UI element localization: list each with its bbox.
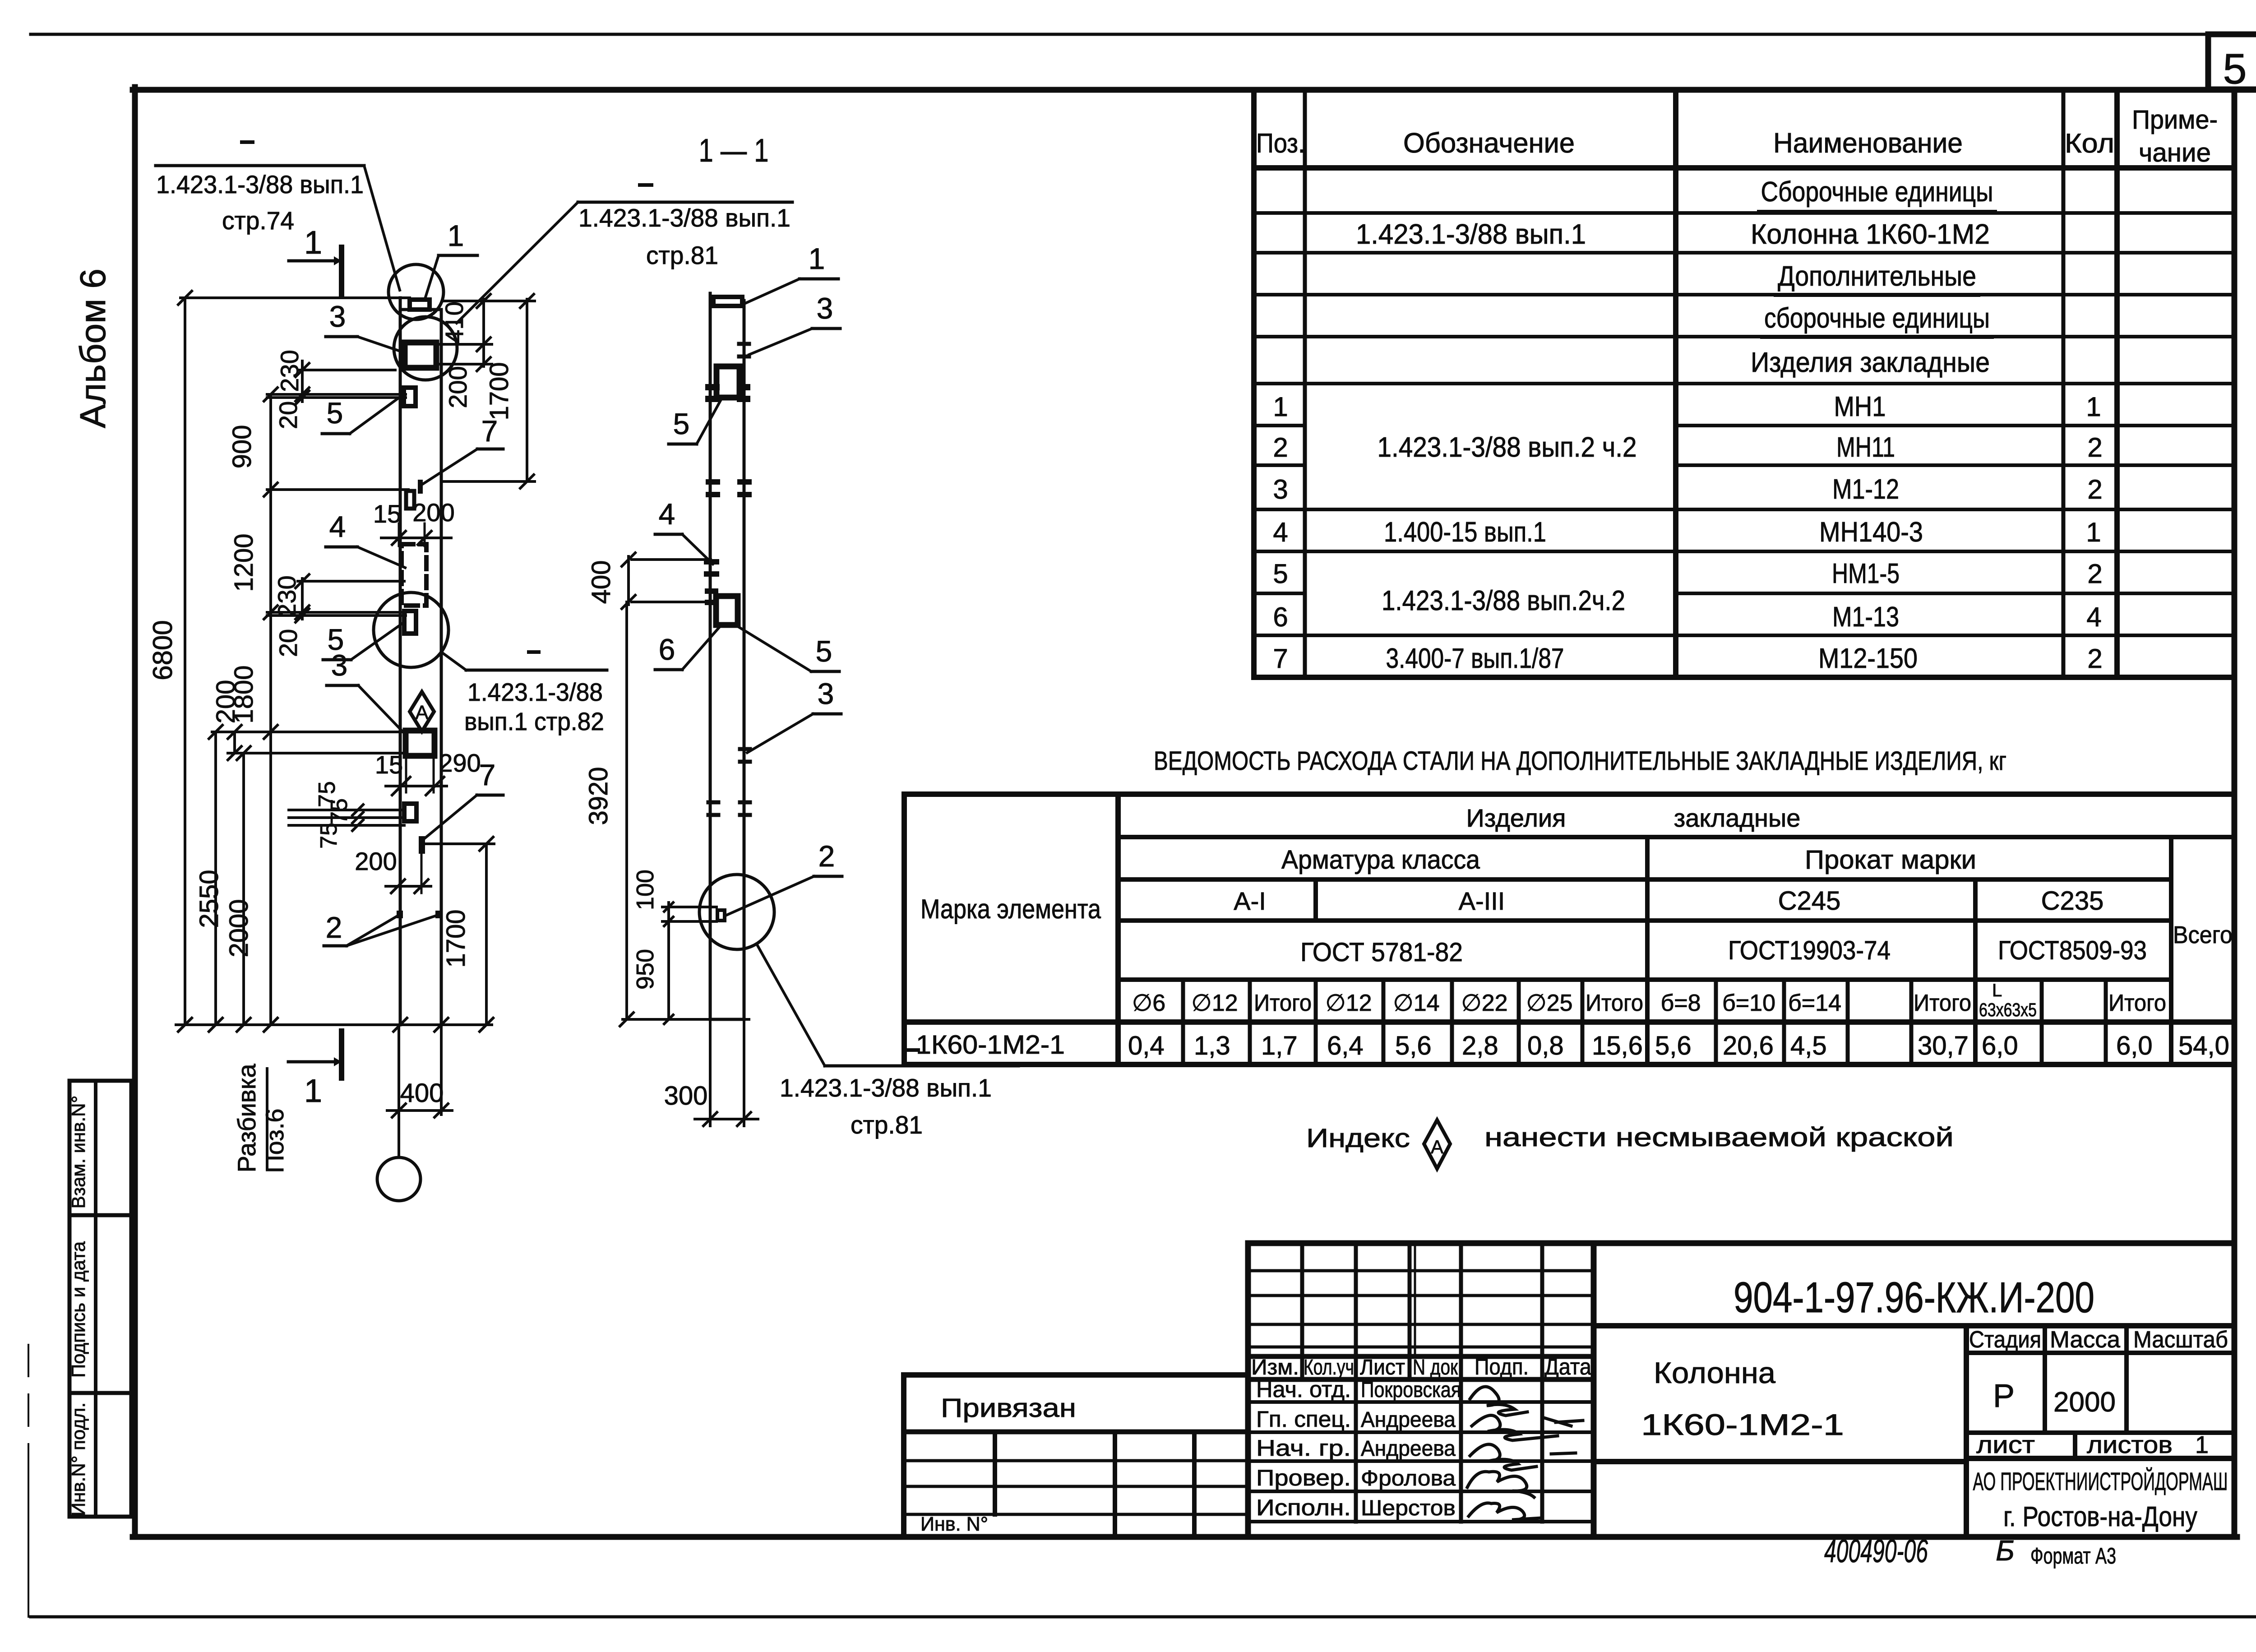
svg-text:вып.1 стр.82: вып.1 стр.82 (464, 707, 604, 736)
svg-text:1.423.1-3/88 вып.1: 1.423.1-3/88 вып.1 (1356, 219, 1586, 250)
svg-text:4,5: 4,5 (1790, 1031, 1827, 1060)
section pos2 rect (717, 910, 725, 921)
svg-text:Наименование: Наименование (1773, 128, 1963, 159)
svg-text:ГОСТ19903-74: ГОСТ19903-74 (1728, 936, 1891, 965)
svg-text:Колонна: Колонна (1654, 1356, 1775, 1389)
svg-text:М1-12: М1-12 (1832, 474, 1899, 505)
detail circle mid (374, 592, 448, 667)
svg-text:1: 1 (2086, 517, 2101, 547)
svg-text:15,6: 15,6 (1592, 1031, 1643, 1060)
svg-text:30,7: 30,7 (1918, 1031, 1969, 1060)
svg-text:Инв.N° подл.: Инв.N° подл. (68, 1402, 89, 1516)
svg-text:Изделия закладные: Изделия закладные (1751, 347, 1990, 378)
svg-text:100: 100 (632, 870, 659, 910)
svg-text:1700: 1700 (441, 909, 471, 967)
svg-text:4: 4 (1273, 517, 1288, 547)
svg-text:1200: 1200 (229, 533, 259, 592)
section bottom ext line (623, 1018, 749, 1021)
steel table grid (901, 794, 907, 1064)
svg-text:1.423.1-3/88 вып.1: 1.423.1-3/88 вып.1 (578, 204, 791, 232)
svg-text:1: 1 (809, 242, 825, 275)
svg-text:А: А (1431, 1136, 1443, 1157)
svg-text:2: 2 (818, 839, 835, 873)
svg-text:Андреева: Андреева (1361, 1408, 1456, 1432)
svg-text:Сборочные единицы: Сборочные единицы (1761, 176, 1993, 208)
svg-text:б=8: б=8 (1660, 990, 1701, 1016)
dim chain 410/200 upper right (482, 299, 485, 366)
title block small table (1245, 1243, 1251, 1537)
svg-text:2,8: 2,8 (1462, 1031, 1498, 1060)
svg-text:закладные: закладные (1674, 804, 1801, 832)
svg-text:листов: листов (2087, 1431, 2173, 1458)
svg-text:1: 1 (1273, 392, 1288, 422)
svg-text:1700: 1700 (485, 362, 514, 420)
svg-text:3920: 3920 (584, 767, 613, 825)
section mark bottom (339, 1031, 344, 1078)
svg-text:75: 75 (316, 823, 342, 849)
svg-text:Нач. гр.: Нач. гр. (1256, 1435, 1351, 1461)
svg-text:Исполн.: Исполн. (1256, 1495, 1351, 1520)
svg-text:5: 5 (1273, 559, 1288, 589)
svg-text:4: 4 (659, 497, 675, 531)
svg-text:7: 7 (479, 758, 496, 791)
svg-text:2: 2 (2087, 559, 2102, 589)
svg-text:Кол: Кол (2065, 128, 2114, 158)
svg-text:7: 7 (1273, 643, 1288, 674)
svg-text:1.400-15 вып.1: 1.400-15 вып.1 (1384, 517, 1546, 548)
svg-text:2: 2 (326, 911, 342, 944)
extension lines left view (180, 296, 410, 299)
drawing frame left (132, 87, 138, 1537)
svg-text:А-III: А-III (1459, 887, 1505, 915)
svg-text:Кол.уч: Кол.уч (1304, 1356, 1354, 1379)
dim 200 (pos7 lower) (386, 885, 431, 888)
svg-text:А-I: А-I (1234, 887, 1266, 915)
svg-text:1,7: 1,7 (1261, 1031, 1298, 1060)
svg-text:МН1: МН1 (1834, 391, 1886, 422)
svg-text:300: 300 (664, 1081, 708, 1111)
svg-text:Разбивка: Разбивка (232, 1064, 261, 1173)
svg-text:3: 3 (817, 292, 833, 325)
plate pos5 mid (404, 611, 416, 634)
svg-text:Итого: Итого (1254, 990, 1312, 1016)
section bottom edge (710, 1018, 744, 1021)
svg-text:0,8: 0,8 (1527, 1031, 1564, 1060)
svg-text:5: 5 (816, 634, 832, 668)
svg-text:4: 4 (329, 510, 346, 543)
svg-text:Изделия: Изделия (1466, 804, 1566, 832)
svg-text:4: 4 (2086, 602, 2101, 632)
svg-text:7: 7 (481, 414, 498, 448)
svg-text:Колонна 1К60-1М2: Колонна 1К60-1М2 (1751, 219, 1990, 250)
svg-text:200: 200 (355, 847, 397, 875)
svg-text:Инв. N°: Инв. N° (920, 1513, 988, 1535)
page number box (2208, 34, 2256, 89)
svg-text:1.423.1-3/88: 1.423.1-3/88 (467, 678, 603, 706)
svg-text:∅22: ∅22 (1461, 990, 1507, 1016)
svg-text:Всего: Всего (2173, 921, 2233, 949)
svg-text:АО ПРОЕКТНИИСТРОЙДОРМАШ: АО ПРОЕКТНИИСТРОЙДОРМАШ (1973, 1467, 2228, 1495)
svg-text:∅25: ∅25 (1526, 990, 1572, 1016)
dim 230/20 upper (301, 361, 304, 402)
pos7 lower bar (419, 837, 425, 853)
section detail circle pos2 (699, 875, 774, 949)
svg-text:Альбом 6: Альбом 6 (73, 268, 113, 428)
svg-text:3: 3 (1273, 474, 1288, 504)
dim 400 bottom (387, 1109, 452, 1112)
privyazan block (904, 1375, 1248, 1537)
svg-text:6,0: 6,0 (1982, 1031, 2018, 1060)
svg-text:Б: Б (1996, 1534, 2015, 1567)
svg-text:Шерстов: Шерстов (1361, 1496, 1456, 1520)
sidebar divider (94, 1081, 97, 1517)
svg-text:Изм.: Изм. (1251, 1356, 1299, 1379)
svg-text:Поз.: Поз. (1256, 128, 1305, 158)
parts table grid (1251, 90, 1257, 677)
svg-text:400: 400 (587, 560, 616, 604)
svg-text:2: 2 (2087, 474, 2102, 504)
svg-text:стр.81: стр.81 (646, 241, 718, 269)
dim 200 left (233, 732, 236, 753)
svg-text:б=14: б=14 (1788, 990, 1841, 1016)
svg-text:1.423.1-3/88 вып.2 ч.2: 1.423.1-3/88 вып.2 ч.2 (1378, 432, 1637, 463)
svg-text:5: 5 (673, 407, 690, 440)
section edge ticks mid1 (708, 479, 717, 485)
svg-text:г. Ростов-на-Дону: г. Ростов-на-Дону (2003, 1501, 2197, 1532)
sidebar box Inv No podl (69, 1393, 131, 1517)
sheet top edge line (31, 33, 2209, 36)
sheet left edge line (partial) (28, 1345, 29, 1453)
svg-text:Итого: Итого (1586, 990, 1643, 1016)
svg-text:20: 20 (274, 629, 302, 657)
section column body (709, 293, 712, 1019)
dim 1700 upper (526, 299, 528, 481)
svg-text:лист: лист (1976, 1431, 2035, 1458)
svg-text:Масштаб: Масштаб (2133, 1327, 2228, 1353)
svg-text:1,3: 1,3 (1194, 1031, 1230, 1060)
svg-text:Р: Р (1993, 1378, 2015, 1414)
svg-text:L: L (1992, 981, 2002, 1000)
section plate pos1 (713, 297, 742, 306)
svg-text:Стадия: Стадия (1969, 1327, 2041, 1353)
svg-text:Формат А3: Формат А3 (2030, 1543, 2116, 1569)
section pos4 dashes (707, 559, 717, 565)
svg-text:Лист: Лист (1360, 1356, 1405, 1379)
plate pos5 upper (404, 388, 416, 406)
dim chain 900/1200/1800/2000 (269, 394, 272, 1025)
section dim 100 (667, 902, 670, 926)
svg-text:5,6: 5,6 (1395, 1031, 1432, 1060)
svg-text:6,4: 6,4 (1327, 1031, 1364, 1060)
title block doc number cell (1594, 1323, 2234, 1328)
svg-text:Провер.: Провер. (1256, 1465, 1351, 1490)
svg-text:Индекс: Индекс (1306, 1124, 1410, 1153)
sidebar box Vzam inv No (69, 1081, 131, 1215)
svg-text:20,6: 20,6 (1723, 1031, 1774, 1060)
svg-text:3: 3 (818, 677, 834, 710)
svg-text:2550: 2550 (194, 870, 224, 928)
svg-text:6800: 6800 (148, 620, 178, 680)
svg-text:0,4: 0,4 (1128, 1031, 1165, 1060)
pos7 upper: anchor rect and bar (406, 491, 414, 509)
svg-text:∅12: ∅12 (1191, 990, 1238, 1016)
section edge dashes above pos5 lower (707, 588, 716, 594)
svg-text:Взам. инв.N°: Взам. инв.N° (68, 1096, 89, 1209)
svg-text:200: 200 (412, 498, 454, 527)
svg-text:Поз.6: Поз.6 (260, 1108, 289, 1173)
svg-text:А: А (415, 702, 429, 724)
dim chain 2000 line (242, 753, 245, 1025)
dim 1700 lower (485, 844, 488, 1025)
svg-text:С235: С235 (2041, 886, 2104, 916)
svg-text:3.400-7 вып.1/87: 3.400-7 вып.1/87 (1386, 643, 1564, 674)
svg-text:54,0: 54,0 (2178, 1031, 2229, 1060)
svg-text:Подп.: Подп. (1475, 1354, 1529, 1379)
plate pos1 top (410, 300, 430, 310)
svg-text:Итого: Итого (1914, 990, 1971, 1016)
svg-text:МН11: МН11 (1836, 432, 1895, 463)
plate pos4 dashed (402, 544, 426, 606)
plate pos3 upper (405, 342, 436, 368)
svg-text:200: 200 (444, 366, 472, 408)
svg-text:1К60-1М2-1: 1К60-1М2-1 (1641, 1408, 1844, 1441)
svg-text:5,6: 5,6 (1655, 1031, 1692, 1060)
svg-text:400: 400 (400, 1078, 444, 1108)
plate pos3 lower (406, 731, 435, 756)
svg-text:2000: 2000 (2053, 1387, 2116, 1418)
section dim 300 (695, 1118, 758, 1120)
svg-text:Покровская: Покровская (1361, 1378, 1461, 1402)
svg-text:ГОСТ 5781-82: ГОСТ 5781-82 (1300, 938, 1463, 967)
svg-text:Дата: Дата (1544, 1354, 1591, 1379)
svg-text:5: 5 (327, 396, 343, 430)
svg-text:НМ1-5: НМ1-5 (1832, 558, 1900, 589)
svg-text:Гп. спец.: Гп. спец. (1256, 1407, 1351, 1432)
svg-text:1.423.1-3/88 вып.1: 1.423.1-3/88 вып.1 (780, 1074, 992, 1102)
dim 2550 (214, 732, 217, 1025)
svg-text:Нач. отд.: Нач. отд. (1256, 1377, 1351, 1402)
svg-text:∅6: ∅6 (1132, 990, 1165, 1016)
svg-text:нанести несмываемой краской: нанести несмываемой краской (1484, 1123, 1954, 1152)
svg-text:Итого: Итого (2108, 990, 2166, 1016)
svg-text:410: 410 (440, 301, 468, 343)
title block name cell (1594, 1459, 1966, 1464)
svg-text:1: 1 (2086, 392, 2101, 422)
detail circle top (388, 264, 444, 319)
svg-text:1: 1 (2195, 1431, 2209, 1458)
dim 15/290 (pos3 lower) (386, 785, 447, 787)
section edge ticks pos3 lower (740, 747, 750, 751)
svg-text:20: 20 (274, 401, 302, 429)
svg-text:950: 950 (632, 949, 659, 990)
svg-text:2: 2 (1273, 432, 1288, 463)
axis circle (377, 1157, 421, 1201)
svg-text:Масса: Масса (2050, 1327, 2120, 1353)
svg-text:2: 2 (2087, 643, 2102, 674)
sheet bottom edge line (31, 1615, 2256, 1619)
svg-text:N док: N док (1413, 1356, 1458, 1379)
svg-text:3: 3 (329, 300, 346, 333)
svg-text:3: 3 (331, 648, 348, 682)
dim 230/20 mid (301, 578, 304, 619)
svg-text:900: 900 (227, 425, 257, 469)
svg-text:200: 200 (211, 680, 240, 724)
detail circle pos3 (394, 317, 457, 380)
section edge ticks beside pos5 (708, 384, 717, 390)
section mark top (339, 247, 344, 296)
svg-text:1: 1 (448, 219, 464, 252)
svg-text:Арматура класса: Арматура класса (1281, 845, 1480, 875)
svg-text:С245: С245 (1778, 886, 1841, 916)
pos2 marks (397, 911, 402, 918)
section dim 400 (627, 556, 630, 605)
svg-text:1: 1 (304, 225, 322, 261)
svg-text:400490-06: 400490-06 (1824, 1533, 1928, 1569)
dim 15/200 upper (pos4) (381, 537, 451, 539)
svg-text:1К60-1М2-1: 1К60-1М2-1 (916, 1030, 1065, 1060)
section dim 3920 (625, 602, 628, 1019)
section leader text str81 bottom (757, 944, 825, 1066)
extension lines upper right (444, 300, 535, 302)
svg-text:15: 15 (373, 500, 401, 528)
signatures squiggles (1470, 1387, 1527, 1416)
date dashes (1556, 1421, 1583, 1422)
svg-text:Обозначение: Обозначение (1403, 128, 1575, 159)
sidebar box Podpis i data (69, 1215, 131, 1393)
svg-text:1.423.1-3/88 вып.2ч.2: 1.423.1-3/88 вып.2ч.2 (1382, 585, 1625, 616)
svg-text:МН140-3: МН140-3 (1819, 517, 1923, 548)
svg-text:ГОСТ8509-93: ГОСТ8509-93 (1998, 936, 2147, 965)
svg-text:б=10: б=10 (1722, 990, 1775, 1016)
svg-text:15: 15 (375, 750, 403, 779)
svg-text:Марка элемента: Марка элемента (920, 894, 1101, 924)
section right edge ticks pos3 upper (739, 342, 749, 346)
section edge ticks mid2 (708, 801, 718, 805)
svg-text:2000: 2000 (224, 899, 254, 957)
svg-text:1: 1 (304, 1073, 322, 1109)
svg-text:230: 230 (275, 350, 304, 392)
svg-text:М1-13: М1-13 (1832, 602, 1899, 633)
svg-text:чание: чание (2139, 138, 2211, 167)
svg-text:6: 6 (1273, 602, 1288, 632)
svg-text:290: 290 (439, 749, 481, 777)
section plate pos5 lower (716, 596, 738, 625)
svg-text:Привязан: Привязан (941, 1393, 1076, 1423)
index diamond (1424, 1120, 1450, 1169)
svg-text:5: 5 (2223, 45, 2247, 93)
drawing frame right (2232, 90, 2238, 1537)
svg-text:6: 6 (659, 633, 675, 666)
svg-text:230: 230 (273, 575, 301, 617)
svg-text:75: 75 (326, 798, 352, 824)
left view: column body (399, 298, 402, 1025)
svg-text:ВЕДОМОСТЬ РАСХОДА СТАЛИ НА: ВЕДОМОСТЬ РАСХОДА СТАЛИ НА ДОПОЛНИТЕЛЬНЫ… (1154, 746, 2006, 776)
svg-text:Прокат марки: Прокат марки (1805, 845, 1976, 875)
svg-text:Дополнительные: Дополнительные (1778, 261, 1976, 292)
dim 75x3 (289, 809, 404, 811)
stage mass scale block (1964, 1326, 1969, 1537)
svg-text:М12-150: М12-150 (1818, 643, 1918, 674)
drawing frame bottom (133, 1534, 2237, 1540)
svg-text:Подпись и дата: Подпись и дата (68, 1241, 89, 1378)
svg-text:63х63х5: 63х63х5 (1979, 999, 2037, 1020)
section plate pos5 upper (717, 366, 740, 398)
svg-text:∅14: ∅14 (1393, 990, 1439, 1016)
dim chain 6800 (184, 298, 186, 1025)
bottom chain line (176, 1023, 492, 1026)
svg-text:1.423.1-3/88 вып.1: 1.423.1-3/88 вып.1 (156, 170, 364, 199)
svg-text:2: 2 (2087, 432, 2102, 463)
svg-text:сборочные единицы: сборочные единицы (1764, 303, 1990, 334)
drawing frame top (133, 87, 2256, 93)
svg-text:904-1-97.96-КЖ.И-200: 904-1-97.96-КЖ.И-200 (1734, 1273, 2094, 1322)
svg-text:6,0: 6,0 (2116, 1031, 2153, 1060)
svg-text:Приме-: Приме- (2132, 105, 2218, 134)
plate pos5 lower (404, 804, 416, 821)
section dim 950 (667, 921, 670, 1019)
svg-text:1 — 1: 1 — 1 (699, 133, 769, 169)
svg-text:Андреева: Андреева (1361, 1437, 1456, 1461)
svg-text:стр.81: стр.81 (851, 1111, 923, 1139)
svg-text:Фролова: Фролова (1361, 1467, 1456, 1490)
svg-text:∅12: ∅12 (1325, 990, 1372, 1016)
svg-text:стр.74: стр.74 (222, 206, 294, 235)
index diamond on column (410, 692, 434, 731)
